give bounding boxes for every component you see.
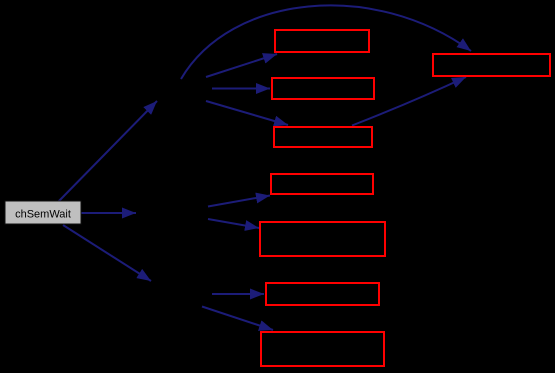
node box 1 xyxy=(275,30,369,52)
node chSemWait xyxy=(5,201,81,224)
wire: curve from upper node to right box (top) xyxy=(181,5,471,79)
wire: upper node to box 1 xyxy=(206,54,277,77)
wire: chSemWait to upper hidden node xyxy=(58,101,157,202)
wire: middle node to box 5 xyxy=(208,219,259,228)
wire: lower node to box 7 xyxy=(202,307,273,331)
node box 4 xyxy=(271,174,373,194)
wire: chSemWait to middle hidden node xyxy=(81,212,136,214)
wire: chSemWait to lower hidden node xyxy=(63,225,151,281)
node box 3 xyxy=(274,127,372,147)
wire: middle node to box 4 xyxy=(208,196,270,207)
svg-text:chSemWait: chSemWait xyxy=(15,209,71,221)
node box 6 xyxy=(266,283,379,305)
node box 5 xyxy=(260,222,385,256)
node box 7 xyxy=(261,332,384,366)
node right box xyxy=(433,54,550,76)
wire: upper node to box 2 xyxy=(212,88,270,90)
node box 2 xyxy=(272,78,374,99)
wire: curve from box 3 to right box (bottom) xyxy=(352,77,466,126)
wire: lower node to box 6 xyxy=(212,293,264,295)
wire: upper node to box 3 xyxy=(206,101,288,125)
